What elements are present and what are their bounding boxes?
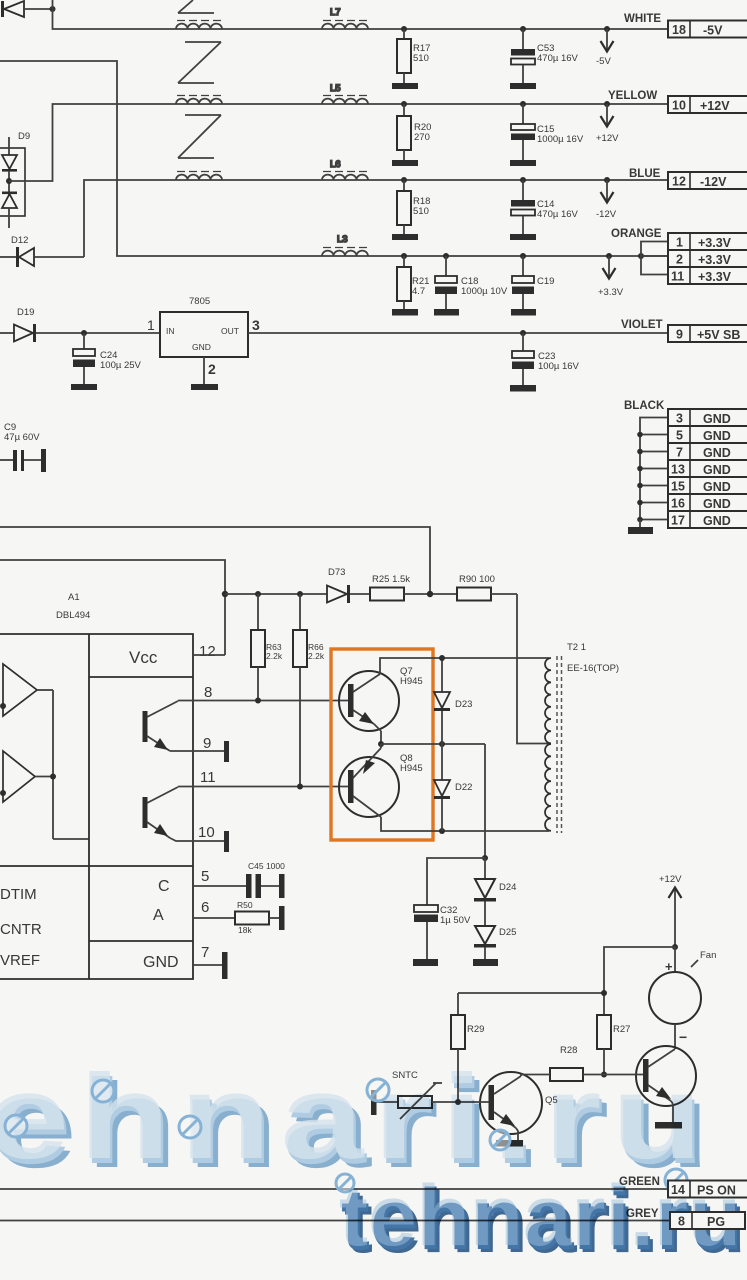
wire to C32 [427,858,485,905]
svg-text:R27: R27 [613,1024,630,1035]
svg-text:C45 1000: C45 1000 [248,861,285,871]
transistor internal T1 [143,701,179,751]
svg-text:A1: A1 [68,592,80,603]
svg-text:9: 9 [203,735,211,752]
svg-text:GND: GND [703,446,731,460]
svg-text:100µ 25V: 100µ 25V [100,360,142,371]
svg-text:GND: GND [703,429,731,443]
svg-text:D19: D19 [17,307,34,318]
pin 5 stub [193,868,246,886]
svg-text:C19: C19 [537,276,554,287]
node winding top junction [439,655,445,661]
node D24 branch [482,855,488,861]
svg-text:Vcc: Vcc [129,648,158,667]
svg-text:R29: R29 [467,1024,484,1035]
svg-text:16: 16 [671,497,685,511]
wire fan branch to R27 [604,947,675,1015]
svg-text:-5V: -5V [596,56,611,67]
transistor Q8 H945 [339,748,423,817]
node Q6 base junction [601,1072,607,1078]
svg-text:CNTR: CNTR [0,921,42,938]
inductor L6 [322,159,368,180]
svg-text:12: 12 [672,175,686,189]
svg-text:7: 7 [201,944,209,961]
svg-text:PS ON: PS ON [697,1184,736,1198]
svg-text:H945: H945 [400,763,423,774]
svg-text:-5V: -5V [703,24,723,38]
pin 11 wire to Q8 base [178,769,348,787]
inductor L7 [322,7,368,29]
pin 12 stub [193,643,225,660]
ground bar of GND bus [628,527,653,534]
capacitor C15 1000u 16V [510,101,584,166]
svg-text:10: 10 [672,99,686,113]
inductor L3 [322,234,368,256]
connector pin 17 GND [668,511,747,528]
wire top-left feed to +3.3V rail [0,61,668,256]
resistor R21 4.7 [392,253,429,316]
svg-text:IN: IN [166,326,175,336]
svg-text:VREF: VREF [0,952,40,969]
node R25/R90 junction [427,591,433,597]
wire feed to R25 junction [0,527,430,594]
svg-text:D22: D22 [455,782,472,793]
svg-text:5: 5 [676,429,683,443]
svg-text:OUT: OUT [221,326,239,336]
svg-text:BLACK: BLACK [624,400,665,412]
svg-text:13: 13 [671,463,685,477]
diode D73 [327,567,370,603]
pin 8 wire to Q7 base [178,684,348,701]
svg-text:2: 2 [208,361,216,377]
+3.3V arrow [598,253,624,298]
svg-text:R90 100: R90 100 [459,574,495,585]
node C24 junction [81,330,87,336]
connector pin 9 +5V SB [668,325,747,342]
svg-text:-12V: -12V [700,175,727,189]
transformer winding Z3 [178,115,221,158]
svg-text:1: 1 [676,236,683,250]
svg-text:−: − [679,1029,687,1045]
diode top-left (cut at corner) [1,1,53,17]
IC A1 DBL494 box [0,592,193,979]
wire Q6 base [604,1074,643,1076]
wire stub up from junction [52,0,54,9]
svg-text:+12V: +12V [700,99,730,113]
connector pin 11 +3.3V [668,267,747,284]
capacitor C23 100u 16V [510,330,580,392]
svg-text:GND: GND [192,342,211,352]
svg-text:BLUE: BLUE [629,168,661,180]
svg-text:470µ 16V: 470µ 16V [537,209,579,220]
node D23/D22 junction [439,741,445,747]
inductor L5 [322,83,368,104]
op-amp U1a (PWM comparator) [0,664,37,716]
svg-text:47µ 60V: 47µ 60V [4,432,40,443]
capacitor C19 [511,253,554,316]
svg-text:14: 14 [671,1183,685,1197]
resistor R27 [597,1015,630,1075]
svg-text:+3.3V: +3.3V [698,270,732,284]
transistor Q7 H945 [339,666,423,731]
resistor R50 18k [235,900,285,935]
transistor Q6 (fan driver) [636,1046,696,1122]
node Q7 emitter junction [378,741,384,747]
svg-text:VIOLET: VIOLET [621,319,663,331]
svg-text:L7: L7 [330,7,341,18]
svg-text:5: 5 [201,868,209,885]
pin 7 GND stub [193,944,228,979]
wire Vcc branch to D73 [225,593,327,595]
svg-text:GND: GND [703,412,731,426]
watermark crossed circles [5,1079,687,1192]
svg-text:2.2k: 2.2k [308,651,325,661]
transformer winding coil on +12V rail [176,96,222,105]
node fan supply junction [672,944,678,950]
svg-text:DTIM: DTIM [0,886,37,903]
watermark tehnari.ru (light) [0,1050,720,1193]
connector pin 7 GND [668,443,747,460]
connector pin 10 +12V [668,96,747,113]
svg-text:270: 270 [414,132,430,143]
connector pin 8 PG [670,1212,745,1229]
svg-text:D23: D23 [455,699,472,710]
node Vcc branch [222,591,228,597]
svg-text:GND: GND [703,497,731,511]
svg-text:470µ 16V: 470µ 16V [537,53,579,64]
resistor R25 1.5k [370,574,457,601]
connector pin 12 -12V [668,172,747,189]
connector pin 14 PS ON [668,1181,747,1198]
wire Q7 collector to winding top [380,658,549,674]
svg-text:+12V: +12V [596,133,619,144]
svg-text:+5V SB: +5V SB [697,328,740,342]
-12V arrow [596,177,617,220]
connector pin 15 GND [668,477,747,494]
svg-text:7805: 7805 [189,296,210,307]
transistor Q5 [480,1072,558,1140]
op-amp U1b (PWM comparator) [0,751,35,802]
watermark tehnari.ru (dark, bottom) [339,1168,746,1271]
svg-text:YELLOW: YELLOW [608,90,657,102]
resistor R29 [451,993,484,1102]
resistor R18 510 [392,177,430,240]
svg-text:H945: H945 [400,676,423,687]
svg-text:1: 1 [147,317,155,333]
svg-text:18k: 18k [238,925,252,935]
svg-text:D24: D24 [499,882,516,893]
svg-text:11: 11 [200,769,216,786]
svg-text:6: 6 [201,899,209,916]
capacitor C53 470u 16V [510,26,579,89]
svg-text:+3.3V: +3.3V [698,253,732,267]
svg-text:11: 11 [671,270,684,284]
wire Q8 lower terminal to winding bottom [381,817,549,831]
diode D19 [0,307,160,342]
wire Q8 upper terminal to drive net [380,744,382,748]
svg-text:D9: D9 [18,131,30,142]
wire bracket to +3.3V pins [638,242,668,275]
wire corner from top diode down to -5V rail [53,9,669,29]
wire R90 to T2.1 center tap [517,594,549,744]
node R27 top [601,990,607,996]
svg-text:L5: L5 [330,83,341,94]
node R29 bottom / Q5 base [455,1099,461,1105]
svg-text:-12V: -12V [596,209,617,220]
svg-text:510: 510 [413,206,429,217]
svg-text:ORANGE: ORANGE [611,228,662,240]
svg-text:100µ 16V: 100µ 16V [538,361,580,372]
diode D23 [434,658,472,744]
capacitor C24 100u 25V [71,333,142,390]
svg-text:D25: D25 [499,927,516,938]
svg-text:R25 1.5k: R25 1.5k [372,574,410,585]
svg-text:+3.3V: +3.3V [698,236,732,250]
connector pin 18 -5V [668,21,747,38]
connector pin 13 GND [668,460,747,477]
svg-text:L3: L3 [337,234,348,245]
svg-text:2.2k: 2.2k [266,651,283,661]
ground bar under D25 [473,948,498,967]
dual diode D9 [0,131,30,228]
connector pin 16 GND [668,494,747,511]
wire PG [0,1220,670,1222]
svg-text:17: 17 [671,514,685,528]
connector pin 1 +3.3V [668,233,747,250]
transistor internal T2 [143,787,179,838]
svg-text:ehnari.ru: ehnari.ru [0,1050,712,1184]
fan M1 [649,947,716,1049]
transformer winding coil on -12V rail [176,172,222,181]
capacitor C45 1000 [246,861,285,898]
svg-text:Fan: Fan [700,950,716,961]
connector pin 5 GND [668,426,747,443]
transformer winding Z1 (top, cut) [178,0,214,13]
ground bus for GND pins [637,418,668,528]
svg-text:GND: GND [703,463,731,477]
svg-text:4.7: 4.7 [412,286,425,297]
svg-text:PG: PG [707,1215,725,1229]
svg-text:1µ 50V: 1µ 50V [440,915,471,926]
node D9 common cathode [6,178,12,184]
svg-text:DBL494: DBL494 [56,610,90,621]
svg-text:510: 510 [413,53,429,64]
wire D12 up to -12V rail [84,180,668,257]
transformer winding coil on -5V rail [176,21,222,30]
capacitor C18 1000u 10V [434,253,508,316]
svg-text:12: 12 [199,643,216,660]
pin 6 stub [193,899,235,918]
wire R29/R27 top rail [458,992,604,994]
svg-text:7: 7 [676,446,683,460]
thermistor SNTC [371,1070,489,1119]
svg-text:18: 18 [672,23,686,37]
resistor R20 270 [392,101,431,166]
svg-text:3: 3 [252,317,260,333]
diode D22 [434,744,472,831]
svg-text:GND: GND [703,514,731,528]
svg-text:C: C [158,878,170,895]
+12V arrow [596,101,619,144]
svg-text:+3.3V: +3.3V [598,287,624,298]
svg-text:10: 10 [198,824,215,841]
connector pin 3 GND [668,409,747,426]
diode D24 [474,858,516,902]
svg-text:15: 15 [671,480,685,494]
wire comparator outputs [35,690,89,839]
svg-text:T2 1: T2 1 [567,642,586,653]
svg-text:L6: L6 [330,159,341,170]
svg-text:9: 9 [676,328,683,342]
pin 10 stub [170,824,229,852]
ground bar under Q6 [655,1122,682,1129]
resistor R28 [550,1045,604,1081]
wire Q7 emitter down [380,731,382,744]
node junction top-left [50,6,56,12]
transformer T2.1 EE-16(TOP) [545,642,619,833]
wire drive net down to D24 [484,744,486,858]
capacitor C14 470u 16V [510,177,579,240]
svg-text:1000µ 10V: 1000µ 10V [461,286,508,297]
capacitor C9 47u 60V [0,422,46,472]
wire PS ON [0,1188,668,1190]
node winding bottom junction [439,828,445,834]
resistor R90 100 [457,574,517,601]
wire middle drive net [381,743,485,745]
svg-text:D73: D73 [328,567,345,578]
ground bar under Q5 [496,1140,523,1147]
diode D25 [474,902,516,948]
resistor R63 2.2k [251,591,283,704]
resistor R66 2.2k [293,591,325,790]
wire feed to pin 12 Vcc [0,560,225,655]
pin 9 stub [170,735,229,762]
connector pin 2 +3.3V [668,250,747,267]
svg-text:R50: R50 [237,900,253,910]
svg-text:+12V: +12V [659,874,682,885]
highlight box (orange) around Q7/Q8 [331,649,433,840]
wire Q5 collector to R28 [521,1074,550,1076]
svg-text:8: 8 [204,684,212,701]
transformer winding Z2 [178,42,221,83]
svg-text:GND: GND [703,480,731,494]
regulator U 7805 [147,296,260,390]
svg-text:D12: D12 [11,235,28,246]
svg-text:8: 8 [678,1215,685,1229]
svg-text:2: 2 [676,253,683,267]
svg-text:WHITE: WHITE [624,13,661,25]
wire D9 to +12V rail [9,104,668,181]
svg-text:3: 3 [676,412,683,426]
diode D12 [0,235,84,267]
-5V arrow [596,26,614,67]
svg-text:GND: GND [143,954,179,971]
capacitor C32 1u 50V [413,905,471,966]
wire 7805 OUT to +5VSB [248,332,668,334]
svg-text:1000µ 16V: 1000µ 16V [537,134,584,145]
resistor R17 510 [392,26,430,89]
svg-text:EE-16(TOP): EE-16(TOP) [567,663,619,674]
svg-text:A: A [153,907,164,924]
+12V arrow (fan supply) [659,874,682,947]
